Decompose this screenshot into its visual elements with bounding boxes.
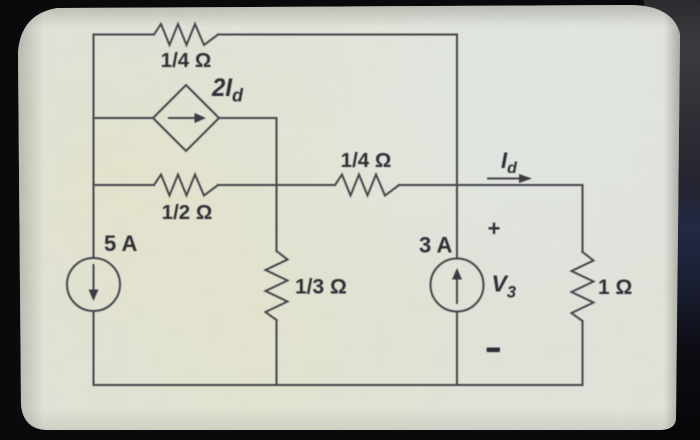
resistor R5 1 ohm (vertical) xyxy=(572,252,594,321)
current source I1 arrow xyxy=(93,265,95,291)
current source I2 arrow shaft xyxy=(456,278,458,303)
current source I2 3A circle xyxy=(431,259,484,312)
resistor R3 1/3 ohm (vertical) xyxy=(266,251,288,320)
wire right vertical upper xyxy=(582,185,584,252)
wire branch A vertical lower xyxy=(276,320,278,385)
wire middle row segment 3 xyxy=(399,184,583,186)
svg-text:3 A: 3 A xyxy=(419,233,453,258)
arrowhead of current source I2 (up) xyxy=(452,268,462,280)
svg-text:1/4 Ω: 1/4 Ω xyxy=(341,149,392,172)
arrowhead of dependent source U1 xyxy=(195,113,207,123)
current source I1 5A circle xyxy=(67,258,120,311)
svg-text:1/3 Ω: 1/3 Ω xyxy=(295,276,347,299)
arrowhead of current arrow Id xyxy=(519,174,532,183)
wire diamond row left xyxy=(94,117,154,119)
wire bottom xyxy=(94,384,583,386)
dependent source U1 arrow shaft xyxy=(169,117,196,119)
resistor R2 1/2 ohm xyxy=(154,175,218,196)
svg-text:1 Ω: 1 Ω xyxy=(598,276,632,299)
wire branch A vertical upper xyxy=(276,118,278,251)
svg-text:1/2 Ω: 1/2 Ω xyxy=(162,201,213,224)
svg-text:1/4 Ω: 1/4 Ω xyxy=(161,49,212,72)
wire middle row segment 2 xyxy=(218,184,335,186)
resistor R4 1/4 ohm (middle) xyxy=(335,175,399,196)
wire top-right horizontal xyxy=(218,34,457,36)
wire left vertical upper xyxy=(93,35,95,259)
wire branch B vertical upper xyxy=(456,35,458,259)
wire diamond row right xyxy=(219,117,277,119)
dependent source U1 diamond 2Id xyxy=(153,85,219,151)
svg-text:5 A: 5 A xyxy=(104,231,138,256)
wire branch B vertical lower xyxy=(456,312,458,386)
wire left vertical lower xyxy=(93,311,95,385)
svg-text:+: + xyxy=(488,216,501,241)
current arrow Id (top of middle wire) xyxy=(488,178,520,180)
arrowhead of current source I1 (down) xyxy=(89,290,99,302)
wire right vertical lower xyxy=(582,321,584,385)
wire middle row segment 1 xyxy=(94,184,155,186)
resistor R1 1/4 ohm (top) xyxy=(154,24,218,45)
wire top-left horizontal xyxy=(94,34,155,36)
polarity minus sign xyxy=(487,348,501,353)
